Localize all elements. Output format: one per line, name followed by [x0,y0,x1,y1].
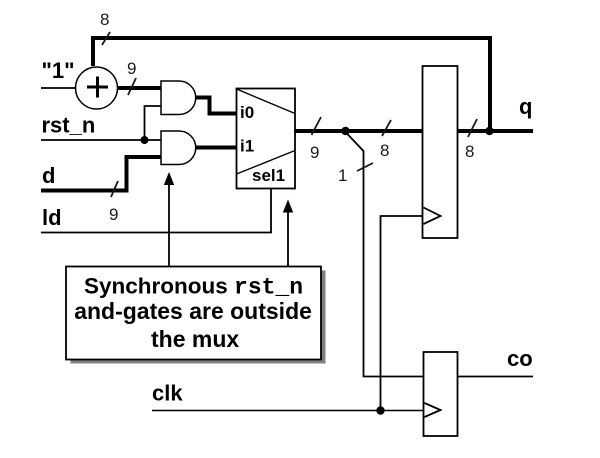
wire FF1 output q bus [458,129,534,133]
svg-text:9: 9 [109,205,118,224]
svg-text:co: co [507,346,533,371]
svg-text:Synchronous rst_n: Synchronous rst_n [84,274,303,301]
bus-width slash 1 (carry) [357,163,373,171]
svg-text:sel1: sel1 [252,166,285,185]
arrow callout to mux sel1 [287,208,289,267]
svg-text:rst_n: rst_n [42,113,96,138]
svg-text:d: d [42,163,55,188]
wire FF2 output co [458,376,534,378]
mux M1 body [237,89,296,189]
callout box [66,267,321,360]
svg-text:9: 9 [310,143,319,162]
FF2 clock triangle [425,403,441,417]
arrow callout to and-gates [168,181,170,267]
node junction rst_n [141,136,149,144]
svg-text:8: 8 [100,10,109,29]
and-gate G1 (upper) [161,81,196,115]
wire d to G2 (9-bit bus) [41,157,161,191]
bus-width slash 8 (before FF1) [382,120,391,136]
svg-text:"1": "1" [42,58,75,83]
register FF1 (upper flip-flop) [423,66,458,238]
node junction clk [376,406,384,414]
svg-text:i1: i1 [240,137,254,156]
svg-text:clk: clk [152,381,183,406]
bus-width slash 8 (top) [102,32,110,45]
wire mux output bus to register FF1 [295,129,423,133]
svg-text:8: 8 [380,141,389,160]
register FF2 (lower flip-flop) [424,352,458,436]
adder U1 (circle with plus) [76,67,118,109]
mux M1 upper diagonal [237,89,296,114]
wire rst_n [41,139,161,141]
bus-width slash 9 (mux output) [312,117,322,135]
wire ld to mux sel1 [41,189,271,233]
node junction carry tap [341,127,349,135]
bus-width slash 9 (d input) [111,181,118,197]
wire rst_n riser to G1 second input [145,106,162,140]
svg-text:i0: i0 [240,103,254,122]
bus-width slash 8 (q output) [468,119,477,137]
wire G1 output to mux i0 [195,98,237,114]
svg-text:the mux: the mux [151,326,239,352]
svg-text:8: 8 [465,142,474,161]
svg-text:q: q [519,94,532,119]
wire clk [152,410,424,412]
wire carry bit 1 to register FF2 [346,132,424,377]
svg-text:9: 9 [127,59,136,78]
svg-text:1: 1 [338,166,347,185]
node junction q feedback [485,127,493,135]
wire adder output to AND gate G1 (9-bit bus) [117,86,162,90]
svg-text:ld: ld [42,205,62,230]
and-gate G2 (lower) [161,131,196,165]
wire G2 output to mux i1 [195,146,237,150]
mux M1 lower diagonal [237,151,296,175]
wire "1" input to adder [41,87,76,89]
callout box shadow [71,271,326,364]
svg-text:and-gates are outside: and-gates are outside [74,298,312,324]
bus-width slash 9 (adder output) [128,78,136,95]
FF1 clock triangle [424,208,441,225]
wire clk riser to FF1 clock [381,216,423,411]
wire feedback bus top (adder to q junction) [93,38,490,129]
